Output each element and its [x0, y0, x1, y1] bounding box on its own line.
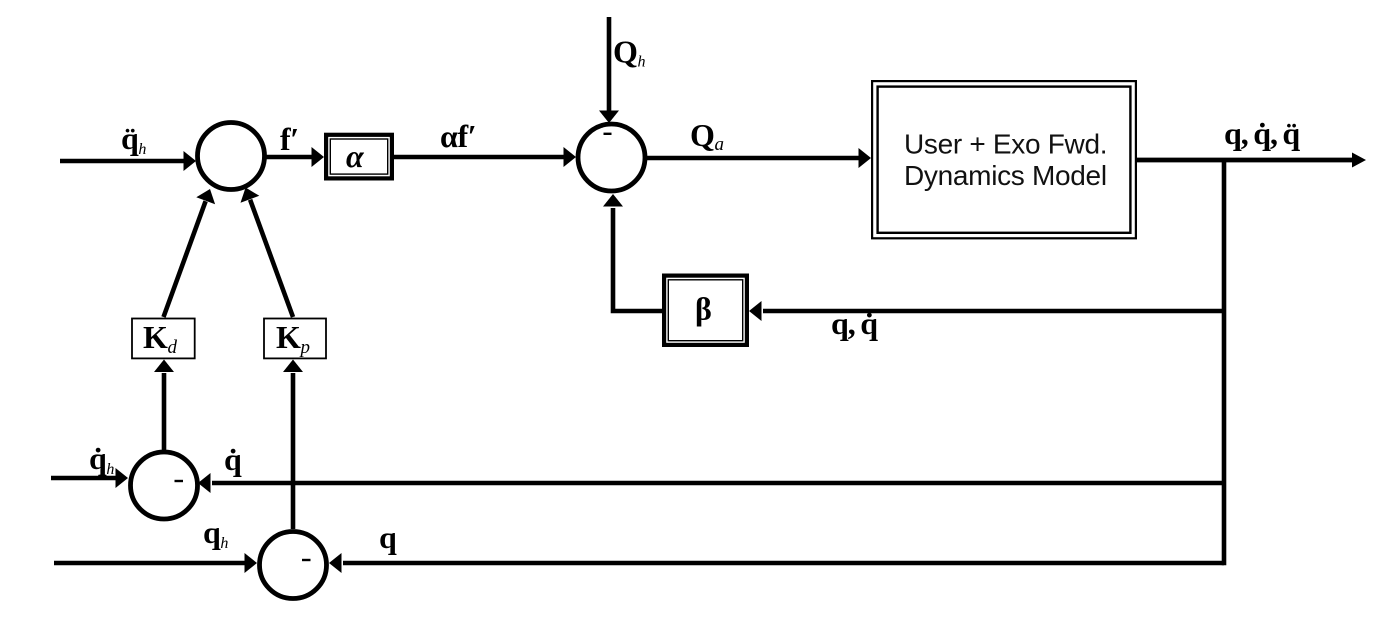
svg-text:β: β [695, 291, 711, 327]
wire S3 to K_d [154, 360, 174, 451]
wire alpha f prime [394, 147, 576, 167]
wire feedback to beta [749, 301, 1224, 321]
wire feedback trunk vertical [1222, 158, 1227, 565]
wire q_h input [54, 553, 257, 573]
svg-text:Dynamics Model: Dynamics Model [904, 160, 1107, 191]
wire K_d to S1 diagonal [164, 189, 216, 317]
wire q feedback [329, 553, 1224, 573]
plant block User + Exo Fwd. Dynamics Model [872, 81, 1136, 238]
svg-text:f′: f′ [280, 121, 299, 157]
wire qdot feedback [198, 473, 1224, 493]
summing junction S3 [131, 452, 198, 519]
wire beta to S2 [603, 194, 662, 311]
gain block beta [664, 276, 747, 345]
summing junction S2 [578, 124, 645, 191]
summing junction S4 [260, 532, 327, 599]
wire f prime [265, 147, 324, 167]
wire output q qdot qddot [1137, 153, 1366, 168]
svg-text:q: q [379, 519, 397, 555]
wire S4 to K_p [283, 360, 303, 530]
wire Q_h input [599, 17, 619, 123]
svg-text:q̇: q̇ [224, 441, 242, 477]
svg-text:αf′: αf′ [440, 118, 476, 154]
svg-text:User + Exo Fwd.: User + Exo Fwd. [904, 129, 1107, 160]
wire qdot_h input [51, 468, 128, 488]
wire input qddot_h [60, 151, 196, 171]
summing junction S1 [198, 123, 265, 190]
gain block K_p [264, 319, 326, 359]
gain block alpha [326, 135, 392, 179]
svg-text:q, q̇: q, q̇ [831, 305, 878, 341]
wire K_p to S1 diagonal [241, 188, 294, 318]
wire Q_a [646, 148, 871, 168]
gain block K_d [132, 319, 195, 359]
svg-text:α: α [346, 138, 365, 174]
svg-text:q, q̇, q̈: q, q̇, q̈ [1224, 115, 1300, 151]
